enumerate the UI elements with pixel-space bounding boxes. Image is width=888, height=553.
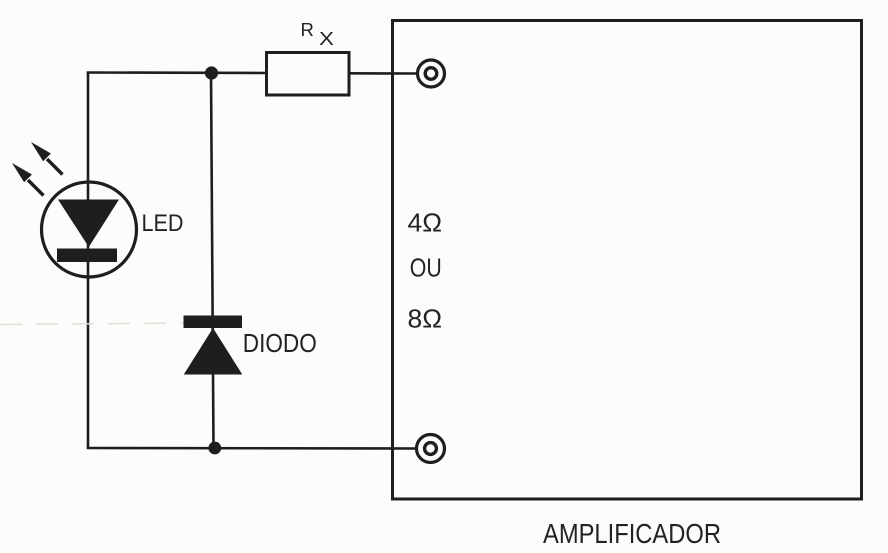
svg-text:DIODO: DIODO — [243, 328, 317, 358]
svg-text:R: R — [301, 19, 314, 40]
svg-text:8Ω: 8Ω — [408, 306, 443, 334]
svg-text:X: X — [319, 29, 334, 49]
svg-text:LED: LED — [142, 210, 184, 237]
svg-text:AMPLIFICADOR: AMPLIFICADOR — [543, 518, 721, 549]
svg-text:OU: OU — [410, 255, 442, 283]
svg-text:4Ω: 4Ω — [408, 210, 443, 238]
